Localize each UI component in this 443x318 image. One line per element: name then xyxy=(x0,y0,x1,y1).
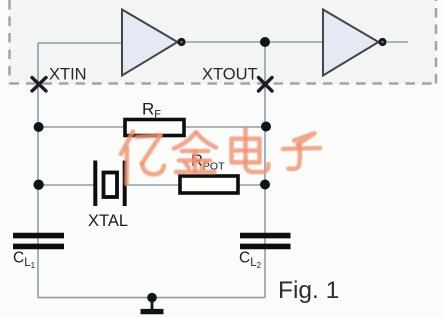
capacitor CL2 xyxy=(240,236,291,247)
wire: RF row left xyxy=(38,126,124,128)
wire: bottom ground rail xyxy=(38,297,265,299)
svg-text:Fig. 1: Fig. 1 xyxy=(278,277,339,304)
dashed IC boundary box xyxy=(10,0,437,84)
svg-text:XTIN: XTIN xyxy=(49,66,87,84)
wire: left vertical XTIN net xyxy=(37,43,39,298)
watermark char 金 xyxy=(174,133,216,173)
watermark "亿金电子" drawn as paths (no CJK font available) xyxy=(121,129,320,185)
watermark char 电 xyxy=(232,129,269,173)
op-amp U2 (inverter) xyxy=(323,10,387,76)
node XTIN pin cross xyxy=(32,78,46,92)
op-amp U1 (inverter) xyxy=(122,10,186,76)
wire: XTAL row left xyxy=(38,184,94,186)
wire: RF row right xyxy=(184,126,265,128)
wire: right vertical XTOUT net xyxy=(264,42,266,298)
capacitor CL1 xyxy=(13,236,64,247)
watermark char 亿 xyxy=(121,132,164,185)
wire: XTAL to RPOT xyxy=(126,184,179,186)
svg-text:XTOUT: XTOUT xyxy=(202,66,258,84)
wire: top-left horizontal XTIN to inverter U1 input xyxy=(38,42,122,44)
junction node dots xyxy=(260,37,270,47)
resistor RF xyxy=(125,120,184,136)
wire: U2 output xyxy=(387,41,408,43)
wire: RPOT to XTOUT net xyxy=(238,184,265,186)
node XTOUT pin cross xyxy=(259,78,273,92)
crystal XTAL xyxy=(95,161,124,207)
wire: U1 output to U2 input xyxy=(186,41,323,43)
ground xyxy=(141,293,164,312)
resistor RPOT xyxy=(180,176,238,193)
svg-text:XTAL: XTAL xyxy=(88,212,128,230)
watermark char 子 xyxy=(283,133,320,169)
